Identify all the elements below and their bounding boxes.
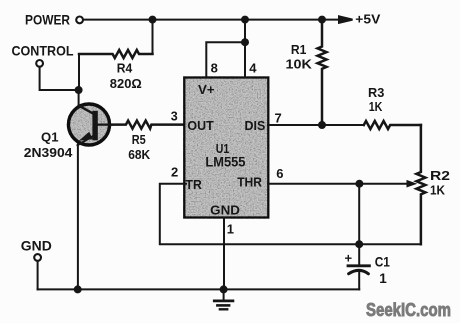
svg-text:1K: 1K <box>430 182 446 197</box>
svg-text:R3: R3 <box>368 85 384 100</box>
wire CONTROL to base node <box>40 67 79 90</box>
svg-text:V+: V+ <box>198 82 215 97</box>
label pin 6 <box>276 166 283 181</box>
label pin 7 <box>275 110 282 125</box>
svg-text:R4: R4 <box>117 61 133 76</box>
svg-text:C1: C1 <box>375 255 391 270</box>
label pin 2 <box>171 165 178 180</box>
op-amp U1 LM555 body <box>184 78 268 218</box>
resistor R3 <box>364 121 421 129</box>
label 820ohm <box>110 76 142 91</box>
label pin 3 <box>171 110 178 124</box>
svg-text:GND: GND <box>21 239 52 254</box>
wire pin 7 DIS to R3 <box>268 124 364 126</box>
wire collector <box>78 90 80 106</box>
node top-rail pin4 junction <box>242 17 248 23</box>
label pin 1 <box>227 222 234 237</box>
transistor Q1 <box>69 104 113 145</box>
wire top rail <box>84 19 339 21</box>
label 10K <box>286 56 313 71</box>
svg-text:OUT: OUT <box>187 118 213 133</box>
wire pin 4 <box>244 20 246 78</box>
svg-text:TR: TR <box>186 177 203 192</box>
svg-text:7: 7 <box>275 110 282 125</box>
svg-text:POWER: POWER <box>25 12 70 28</box>
label R4 <box>117 61 133 76</box>
node DIS R1 junction <box>319 122 325 128</box>
svg-text:820Ω: 820Ω <box>110 76 142 91</box>
wire THR down to C1 node <box>358 184 360 245</box>
terminal GND <box>34 254 41 261</box>
label C1 plus <box>345 251 353 266</box>
svg-text:8: 8 <box>211 61 218 76</box>
svg-text:CONTROL: CONTROL <box>12 44 74 59</box>
svg-text:6: 6 <box>276 166 283 181</box>
power arrow +5V <box>339 16 353 23</box>
label CONTROL <box>12 44 74 59</box>
svg-text:GND: GND <box>210 202 240 217</box>
node top-rail R1 junction <box>319 17 325 23</box>
svg-text:+: + <box>345 251 353 266</box>
svg-text:R2: R2 <box>430 168 450 183</box>
node C1 top junction <box>356 241 362 247</box>
label 1K R2 <box>430 182 446 197</box>
svg-text:3: 3 <box>171 110 178 124</box>
terminal POWER <box>76 17 83 24</box>
node top-rail R4 junction <box>150 17 156 23</box>
svg-text:2: 2 <box>171 165 178 180</box>
label Q1 <box>41 130 59 145</box>
node ground rail junction <box>221 286 227 292</box>
svg-text:SeekIC.com: SeekIC.com <box>366 299 451 320</box>
node pin4 bracket junction <box>242 39 248 45</box>
svg-text:1: 1 <box>379 271 387 286</box>
label R5 <box>132 132 146 147</box>
svg-text:DIS: DIS <box>245 118 266 133</box>
wire pin 2 TR routing <box>160 184 359 245</box>
wire R2 bottom to C1 node <box>359 243 421 245</box>
wire pin 1 <box>223 218 225 290</box>
svg-text:10K: 10K <box>286 56 313 71</box>
capacitor C1 <box>348 244 369 289</box>
svg-text:Q1: Q1 <box>41 130 59 145</box>
label 2N3904 <box>24 145 73 160</box>
label C1 <box>375 255 391 270</box>
wire pin 6 THR <box>268 183 359 185</box>
label R1 <box>291 42 307 57</box>
node emitter rail junction <box>75 286 81 292</box>
wire R4 left leg <box>78 54 80 90</box>
label 68K <box>128 147 151 162</box>
label R2 <box>430 168 450 183</box>
label C1 value 1 <box>379 271 387 286</box>
svg-text:R5: R5 <box>132 132 146 147</box>
label R3 <box>368 85 384 100</box>
svg-text:+5V: +5V <box>355 13 381 27</box>
label pin 4 <box>249 61 257 76</box>
svg-text:R1: R1 <box>291 42 307 57</box>
resistor R1 <box>318 20 327 125</box>
watermark SeekIC.com <box>366 299 451 320</box>
svg-text:68K: 68K <box>128 147 151 162</box>
label POWER <box>25 12 70 28</box>
label pin 8 <box>211 61 218 76</box>
wire R3 to R2 <box>420 125 422 172</box>
resistor R5 <box>112 121 186 129</box>
svg-text:2N3904: 2N3904 <box>24 145 73 160</box>
terminal CONTROL <box>36 60 43 67</box>
resistor R2 potentiometer <box>359 125 425 244</box>
svg-text:1: 1 <box>227 222 234 237</box>
wire pin 8 <box>206 42 245 77</box>
label 1K R3 <box>369 99 383 114</box>
svg-text:THR: THR <box>237 174 262 189</box>
resistor R4 <box>79 50 153 58</box>
label +5V <box>355 13 381 27</box>
svg-text:LM555: LM555 <box>205 154 245 169</box>
node base junction <box>76 87 82 93</box>
svg-text:1K: 1K <box>369 99 383 114</box>
wire bottom rail <box>38 288 360 290</box>
node THR junction <box>356 181 362 187</box>
svg-text:4: 4 <box>249 61 257 76</box>
wire GND down <box>37 261 39 290</box>
wire emitter down <box>77 145 79 290</box>
wire R4 top leg <box>152 20 154 54</box>
ground <box>214 289 233 309</box>
label GND terminal <box>21 239 52 254</box>
